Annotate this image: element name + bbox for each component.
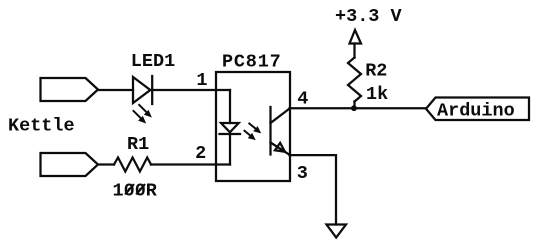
svg-text:PC817: PC817 [222,51,282,72]
svg-text:1k: 1k [366,84,388,105]
svg-text:3: 3 [297,163,308,184]
pin number 2 [195,143,206,164]
svg-text:+3.3 V: +3.3 V [335,6,403,27]
svg-text:R1: R1 [127,134,149,155]
connector tag (Kettle, top pin) [41,78,99,101]
ground [327,225,347,238]
svg-text:4: 4 [297,89,308,110]
svg-text:100R: 100R [113,181,158,202]
label LED1 [131,51,175,72]
LED LED1 [133,76,152,104]
opto internal LED [220,90,241,165]
LED1 emission arrow a [139,105,151,117]
label R2 [365,61,387,82]
power symbol +3.3 V arrow [350,30,362,58]
wire LED1 cathode to opto internal LED (pin 1 net) [152,89,230,91]
label R1 [127,134,149,155]
connector tag (Kettle, bottom pin) [41,153,99,176]
coupling arrow a [249,124,260,133]
svg-text:2: 2 [195,143,206,164]
opto phototransistor collector [271,108,291,123]
pin number 4 [297,89,308,110]
resistor R1 [114,158,151,172]
svg-text:R2: R2 [365,61,387,82]
wire R1 to opto pin 2 [151,163,230,165]
svg-text:1: 1 [196,70,207,91]
wire tag to LED1 anode [98,89,133,91]
opto phototransistor emitter with arrow [271,143,291,156]
value label 100R [113,181,158,202]
connector tag Arduino [426,98,529,121]
pin number 3 [297,163,308,184]
junction dot at R2 [351,105,357,111]
LED1 emission arrow b [134,111,146,123]
wire tag to R1 [98,163,114,165]
power net label +3.3 V [335,6,403,27]
resistor R2 [348,58,361,102]
svg-text:Arduino: Arduino [437,101,515,122]
net label Kettle [8,116,75,137]
label PC817 [222,51,282,72]
op-to-coupler U1 PC817 body [216,72,290,181]
net label Arduino [437,101,515,122]
wire pin 4 to Arduino tag [290,107,427,109]
coupling arrow b [245,131,255,140]
svg-text:Kettle: Kettle [8,116,75,137]
wire pin 3 to ground [290,155,337,224]
opto phototransistor base bar [269,107,271,155]
pin number 1 [196,70,207,91]
value label 1k [366,84,388,105]
svg-text:LED1: LED1 [131,51,175,72]
wire R2 to junction [353,102,355,109]
